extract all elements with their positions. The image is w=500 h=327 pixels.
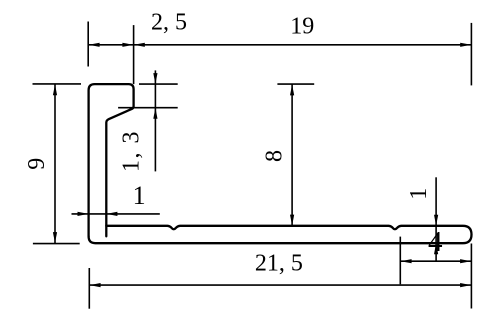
dimension 21,5	[89, 244, 471, 309]
svg-text:21, 5: 21, 5	[255, 250, 303, 276]
left ext	[88, 268, 90, 309]
dimension 1 (base thickness)	[434, 177, 438, 261]
top ext	[33, 83, 82, 85]
dimension 1 (leg wall thickness)	[72, 212, 160, 216]
ext line at notch	[399, 237, 401, 285]
right ext	[470, 244, 472, 309]
profile base with serration notches and rounded right end	[89, 226, 472, 243]
svg-text:1: 1	[406, 188, 432, 200]
svg-text:9: 9	[24, 158, 50, 170]
svg-text:1, 3: 1, 3	[118, 130, 144, 172]
svg-text:19: 19	[290, 14, 314, 40]
profile outline outer (J-channel cross-section)	[89, 84, 472, 243]
dimension 19	[134, 23, 472, 86]
dim line	[88, 44, 133, 46]
dimension 1,3	[118, 70, 178, 171]
dimension 2,5	[88, 22, 133, 67]
svg-text:4: 4	[428, 226, 443, 258]
dimension 4	[400, 237, 471, 285]
right ext line	[470, 23, 472, 86]
ext line at x=133.6 above profile	[133, 25, 135, 84]
ext line left	[87, 22, 89, 67]
top ext	[139, 83, 178, 85]
bottom ext	[118, 107, 178, 109]
dim line with tails	[154, 70, 156, 171]
dimension 8	[277, 84, 314, 226]
top ext	[277, 83, 314, 85]
bottom ext	[33, 243, 80, 245]
svg-text:8: 8	[262, 150, 288, 162]
dimension 9	[33, 84, 82, 244]
svg-text:2, 5: 2, 5	[151, 9, 187, 35]
svg-text:1: 1	[133, 181, 146, 210]
